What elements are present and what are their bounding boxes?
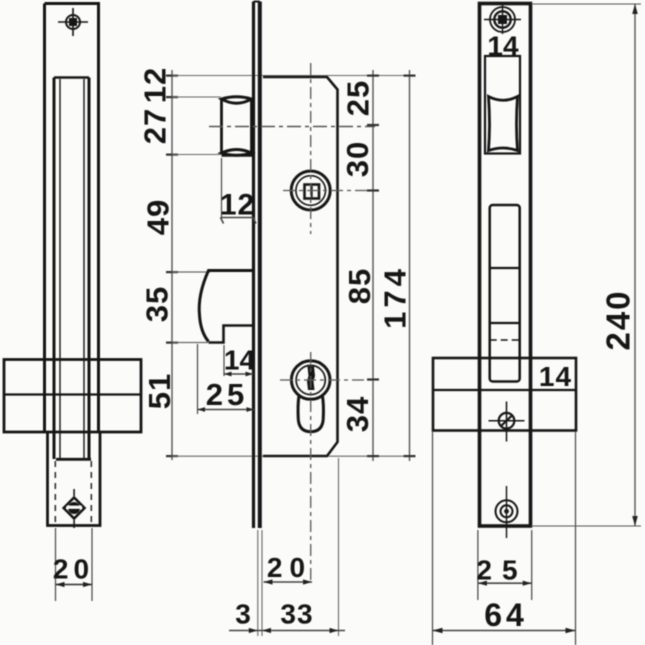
middle screw hole (cross) xyxy=(489,402,525,442)
cylinder keyway xyxy=(307,367,315,391)
dimension 240 xyxy=(532,4,642,526)
follower hub xyxy=(291,171,330,210)
svg-text:25: 25 xyxy=(206,377,248,412)
svg-text:27: 27 xyxy=(137,108,172,144)
svg-text:174: 174 xyxy=(378,265,413,329)
dimension 20 (backset) xyxy=(264,581,313,583)
svg-text:14: 14 xyxy=(539,361,572,392)
svg-text:25: 25 xyxy=(476,555,527,586)
deadbolt hook shape xyxy=(199,271,253,343)
svg-text:85: 85 xyxy=(342,268,377,304)
ticks on left dim stack xyxy=(166,75,178,458)
dimension 25 (middle) xyxy=(198,344,255,414)
dim line x172 xyxy=(171,70,173,460)
svg-text:51: 51 xyxy=(142,373,177,409)
latch centerline xyxy=(209,126,375,128)
svg-text:240: 240 xyxy=(600,289,637,350)
dimension 20 (left bottom) xyxy=(56,528,93,601)
left plate outline xyxy=(45,4,99,433)
follower centerlines xyxy=(283,63,375,234)
svg-text:20: 20 xyxy=(53,554,94,585)
svg-text:3: 3 xyxy=(235,599,252,630)
svg-text:64: 64 xyxy=(484,597,528,633)
hidden channel dashed lines xyxy=(55,461,91,523)
svg-text:33: 33 xyxy=(280,599,313,630)
svg-text:25: 25 xyxy=(340,80,375,116)
deadbolt opening xyxy=(490,205,520,382)
extension lines to middle view xyxy=(172,76,415,457)
svg-text:14: 14 xyxy=(224,345,256,376)
left plate slot xyxy=(54,78,91,460)
svg-text:34: 34 xyxy=(340,396,375,432)
dimension 25 (right bottom) xyxy=(478,530,532,600)
svg-text:35: 35 xyxy=(140,286,175,322)
faceplate (edge-on) xyxy=(254,2,260,529)
latch bolt (side view) xyxy=(222,97,254,156)
svg-text:30: 30 xyxy=(340,141,375,177)
left bottom screw hole xyxy=(64,489,85,528)
left plate lower shoe xyxy=(48,432,101,526)
latch opening xyxy=(485,56,520,154)
dimension 64 xyxy=(433,432,576,645)
cylinder centerlines xyxy=(280,352,375,582)
svg-text:12: 12 xyxy=(137,67,172,103)
bottom screw hole xyxy=(496,486,518,538)
faceplate extension lines down xyxy=(258,458,339,636)
left plate top screw hole xyxy=(58,8,88,36)
right plate outline xyxy=(480,4,531,527)
dimension 14 (middle) xyxy=(224,345,253,376)
right cross box xyxy=(433,358,576,431)
dim line x373 (25/30/85/34) xyxy=(372,70,374,461)
dimension 12 (latch width) xyxy=(221,158,257,224)
svg-text:12: 12 xyxy=(220,189,255,222)
svg-text:20: 20 xyxy=(267,552,312,583)
right top screw hole xyxy=(484,5,521,34)
lock case outline xyxy=(263,77,338,456)
dim line x409.5 (174) xyxy=(409,70,411,461)
svg-text:49: 49 xyxy=(141,199,176,235)
latch bolt face xyxy=(489,97,518,151)
left cross box xyxy=(4,360,141,433)
dimension 3 / 33 (bottom) xyxy=(229,630,345,632)
euro cylinder profile xyxy=(291,361,330,432)
